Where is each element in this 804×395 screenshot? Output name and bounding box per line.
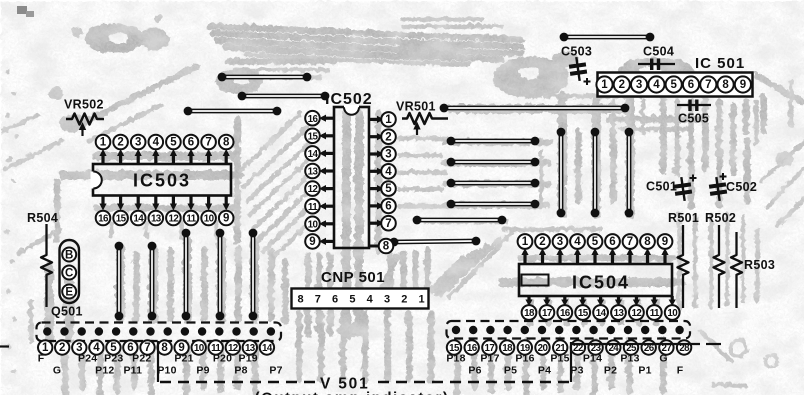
resistor R504 — [27, 211, 58, 307]
svg-text:C: C — [65, 267, 73, 279]
svg-text:16: 16 — [98, 214, 109, 225]
IC504 pin 13 — [617, 296, 620, 302]
board designator V501 — [0, 345, 9, 347]
svg-text:P2: P2 — [604, 365, 617, 377]
IC502 pin 8 — [369, 245, 378, 248]
IC501 pin 3 — [631, 76, 647, 92]
svg-text:13: 13 — [308, 167, 319, 178]
svg-text:14: 14 — [133, 214, 144, 225]
svg-text:12: 12 — [169, 214, 180, 225]
svg-text:8: 8 — [223, 137, 230, 149]
svg-text:16: 16 — [467, 343, 478, 354]
svg-text:3: 3 — [385, 149, 391, 161]
svg-text:R503: R503 — [744, 258, 775, 272]
IC502 pin 16 — [322, 117, 334, 120]
svg-text:5: 5 — [670, 79, 677, 91]
svg-text:(Output amp indicator): (Output amp indicator) — [255, 390, 450, 395]
svg-text:20: 20 — [538, 343, 549, 354]
svg-text:3: 3 — [135, 137, 141, 149]
svg-text:IC 501: IC 501 — [695, 55, 745, 72]
svg-text:4: 4 — [574, 236, 581, 248]
IC501 pin 1 — [596, 76, 612, 92]
wire W14 — [625, 128, 634, 218]
connector pin 3 — [72, 340, 86, 354]
connector pin 8 — [157, 340, 171, 354]
IC503 pin 2 — [119, 152, 122, 164]
IC501 pin 7 — [700, 76, 716, 92]
svg-text:R501: R501 — [668, 211, 699, 225]
connector pin 5 — [106, 340, 120, 354]
IC503 pin 3 — [137, 152, 140, 164]
svg-text:P13: P13 — [620, 353, 639, 365]
svg-text:P4: P4 — [538, 365, 551, 377]
IC503 pin 8 — [225, 152, 228, 164]
svg-text:9: 9 — [309, 236, 315, 248]
IC503 pin 5 — [172, 152, 175, 164]
svg-text:7: 7 — [205, 137, 211, 149]
svg-text:14: 14 — [308, 149, 319, 160]
svg-text:P20: P20 — [213, 353, 232, 365]
svg-text:P9: P9 — [196, 365, 209, 377]
svg-text:P10: P10 — [157, 365, 176, 377]
svg-text:2: 2 — [59, 342, 65, 354]
svg-text:IC504: IC504 — [572, 273, 630, 293]
connector pin 19 — [518, 340, 532, 354]
connector pin 9 — [174, 340, 188, 354]
jumper wires — [115, 33, 655, 321]
IC503 pin 6 — [189, 152, 192, 164]
svg-text:8: 8 — [383, 241, 390, 253]
svg-text:14: 14 — [262, 343, 273, 354]
svg-text:6: 6 — [688, 79, 694, 91]
svg-text:15: 15 — [578, 308, 589, 319]
svg-text:11: 11 — [308, 202, 318, 213]
connector pin 20 — [535, 340, 549, 354]
wire W8 — [447, 179, 540, 188]
connector pin 10 — [192, 340, 206, 354]
svg-text:7: 7 — [627, 236, 633, 248]
IC504 pin 18 — [527, 296, 530, 302]
wire W7 — [447, 158, 540, 167]
svg-text:5: 5 — [170, 137, 177, 149]
wire W16 — [148, 242, 157, 321]
bottom connectors — [37, 323, 283, 377]
IC502 pin 6 — [369, 204, 381, 207]
connector pin 4 — [89, 340, 103, 354]
IC504 pin 4 — [576, 251, 579, 264]
svg-text:10: 10 — [194, 343, 205, 354]
IC504 pin 8 — [646, 251, 649, 264]
IC503 pin 7 — [207, 152, 210, 164]
trace line over pins 22-28 — [570, 343, 700, 345]
connector pin 6 — [123, 340, 137, 354]
wire W2 — [238, 92, 330, 101]
svg-text:9: 9 — [662, 236, 668, 248]
svg-text:C505: C505 — [678, 112, 709, 126]
wire W3 — [184, 107, 282, 116]
IC503 pin 1 — [101, 152, 104, 164]
svg-text:7: 7 — [705, 79, 711, 91]
svg-text:5: 5 — [349, 294, 355, 306]
connector pin 17 — [482, 340, 496, 354]
wire W6 — [447, 137, 540, 146]
IC504 pin 17 — [545, 296, 548, 302]
svg-text:P15: P15 — [550, 353, 569, 365]
svg-text:18: 18 — [524, 308, 535, 319]
svg-text:6: 6 — [609, 236, 615, 248]
IC504 pin 2 — [541, 251, 544, 264]
svg-text:F: F — [38, 353, 45, 365]
IC IC501 — [596, 55, 752, 97]
IC504 pin 14 — [599, 296, 602, 302]
svg-text:1: 1 — [385, 114, 392, 126]
svg-text:P5: P5 — [504, 365, 517, 377]
wire W9 — [447, 200, 540, 209]
svg-text:VR501: VR501 — [396, 100, 436, 114]
svg-text:P8: P8 — [234, 365, 247, 377]
connector pin 2 — [55, 340, 69, 354]
IC503 pin 15 — [119, 196, 122, 208]
svg-text:10: 10 — [308, 219, 319, 230]
IC503 pin 12 — [172, 196, 175, 208]
connector pin 12 — [226, 340, 240, 354]
svg-text:3: 3 — [557, 236, 563, 248]
svg-text:13: 13 — [614, 308, 625, 319]
wire W4 — [560, 33, 655, 42]
connector pin 22 — [571, 340, 585, 354]
svg-text:8: 8 — [161, 342, 168, 354]
IC502 pin 13 — [322, 169, 334, 172]
svg-text:4: 4 — [367, 294, 374, 306]
capacitor C505 — [677, 104, 711, 106]
IC502 pin 10 — [322, 222, 334, 225]
IC504 pin 12 — [635, 296, 638, 302]
IC502 pin 2 — [369, 135, 381, 138]
svg-text:1: 1 — [601, 79, 608, 91]
resistor R503 — [731, 232, 742, 308]
svg-text:8: 8 — [722, 79, 729, 91]
svg-text:G: G — [53, 365, 61, 377]
IC IC502 — [305, 91, 396, 253]
svg-text:R502: R502 — [705, 211, 736, 225]
IC501 pin 8 — [718, 76, 734, 92]
svg-text:2: 2 — [401, 294, 407, 306]
connector pin 21 — [553, 340, 567, 354]
svg-text:G: G — [659, 353, 667, 365]
svg-text:8: 8 — [644, 236, 651, 248]
wire W10 — [413, 216, 507, 225]
connector pin 16 — [465, 340, 479, 354]
svg-text:5: 5 — [385, 183, 392, 195]
svg-text:P18: P18 — [446, 353, 465, 365]
svg-text:C502: C502 — [726, 180, 757, 194]
svg-text:2: 2 — [539, 236, 545, 248]
IC504 pin 10 — [671, 296, 674, 302]
connector pin 7 — [140, 340, 154, 354]
svg-text:4: 4 — [385, 166, 392, 178]
svg-text:E: E — [65, 286, 73, 298]
svg-text:10: 10 — [204, 214, 215, 225]
IC501 pin 5 — [666, 76, 682, 92]
svg-text:18: 18 — [502, 343, 513, 354]
connector pin 28 — [677, 340, 691, 354]
IC503 pin 16 — [101, 196, 104, 208]
svg-text:CNP 501: CNP 501 — [321, 269, 385, 286]
connector pin 23 — [588, 340, 602, 354]
wire W5 — [440, 104, 630, 113]
svg-text:4: 4 — [653, 79, 660, 91]
svg-text:6: 6 — [332, 294, 338, 306]
connector pin 14 — [260, 340, 274, 354]
IC502 pin 3 — [369, 152, 381, 155]
IC501 pin 2 — [614, 76, 630, 92]
capacitors top — [561, 45, 711, 126]
svg-text:11: 11 — [650, 308, 660, 319]
IC503 pin 4 — [154, 152, 157, 164]
svg-text:3: 3 — [384, 294, 390, 306]
svg-text:9: 9 — [740, 79, 746, 91]
svg-text:11: 11 — [186, 214, 196, 225]
connector CNP501 — [292, 269, 429, 309]
wire W17 — [182, 229, 191, 321]
connector pin 27 — [659, 340, 673, 354]
svg-text:P14: P14 — [583, 353, 602, 365]
IC IC504 — [518, 234, 680, 320]
IC IC503 — [91, 135, 234, 226]
svg-text:P11: P11 — [123, 365, 142, 377]
svg-text:7: 7 — [315, 294, 321, 306]
IC501 pin 9 — [735, 76, 751, 92]
connector left half (pins 1-14) — [37, 323, 282, 342]
svg-text:P17: P17 — [480, 353, 499, 365]
IC504 pin 7 — [628, 251, 631, 264]
connector pin 18 — [500, 340, 514, 354]
capacitor C502 — [708, 176, 728, 202]
wire W12 — [557, 128, 566, 218]
IC502 pin 11 — [322, 205, 334, 208]
variable resistor VR501 — [396, 100, 448, 136]
svg-text:6: 6 — [188, 137, 194, 149]
svg-text:P3: P3 — [570, 365, 583, 377]
svg-text:P24: P24 — [78, 353, 97, 365]
svg-text:10: 10 — [667, 308, 678, 319]
svg-text:7: 7 — [385, 218, 391, 230]
svg-text:P16: P16 — [515, 353, 534, 365]
wire W1 — [218, 73, 312, 82]
wire W15 — [115, 242, 124, 321]
IC502 pin 5 — [369, 187, 381, 190]
IC502 pin 14 — [322, 152, 334, 155]
IC504 pin 16 — [563, 296, 566, 302]
IC502 pin 15 — [322, 134, 334, 137]
svg-text:C504: C504 — [643, 45, 674, 59]
svg-text:12: 12 — [308, 184, 319, 195]
svg-text:P22: P22 — [132, 353, 151, 365]
svg-text:13: 13 — [151, 214, 162, 225]
svg-text:2: 2 — [117, 137, 123, 149]
svg-text:1: 1 — [522, 236, 529, 248]
wire W19 — [249, 229, 258, 321]
svg-text:3: 3 — [636, 79, 642, 91]
svg-text:R504: R504 — [27, 211, 58, 225]
svg-text:VR502: VR502 — [64, 98, 104, 112]
IC502 pin 12 — [322, 187, 334, 190]
svg-text:8: 8 — [297, 294, 303, 306]
wire W13 — [591, 128, 600, 218]
svg-text:5: 5 — [592, 236, 599, 248]
IC503 pin 13 — [154, 196, 157, 208]
variable resistor VR502 — [64, 98, 104, 137]
svg-text:C501: C501 — [646, 180, 677, 194]
IC504 pin 5 — [593, 251, 596, 264]
svg-text:P6: P6 — [468, 365, 481, 377]
IC503 pin 9 — [225, 196, 228, 208]
svg-text:16: 16 — [308, 114, 319, 125]
svg-text:F: F — [677, 365, 684, 377]
board V501 bracket — [0, 341, 571, 395]
svg-text:P1: P1 — [638, 365, 651, 377]
svg-text:P23: P23 — [104, 353, 123, 365]
svg-text:C503: C503 — [561, 45, 592, 59]
transistor Q501 — [51, 240, 83, 319]
svg-text:15: 15 — [308, 131, 319, 142]
IC504 pin 15 — [581, 296, 584, 302]
connector pin 13 — [243, 340, 257, 354]
svg-text:17: 17 — [542, 308, 553, 319]
IC504 pin 3 — [558, 251, 561, 264]
IC502 pin 9 — [322, 240, 334, 243]
IC501 pin 4 — [648, 76, 664, 92]
connector pin 25 — [624, 340, 638, 354]
corner speck top-left — [17, 6, 27, 14]
svg-text:B: B — [65, 249, 73, 261]
svg-text:6: 6 — [385, 201, 391, 213]
wire W18 — [216, 229, 225, 321]
IC503 pin 14 — [137, 196, 140, 208]
IC504 pin 1 — [523, 251, 526, 264]
svg-text:12: 12 — [632, 308, 643, 319]
connector pin 26 — [642, 340, 656, 354]
svg-text:P19: P19 — [239, 353, 258, 365]
svg-text:2: 2 — [385, 131, 391, 143]
svg-text:IC503: IC503 — [133, 171, 191, 191]
IC504 pin 11 — [653, 296, 656, 302]
connector pin 24 — [606, 340, 620, 354]
svg-text:1: 1 — [419, 294, 425, 306]
svg-text:2: 2 — [619, 79, 625, 91]
connector pin 11 — [209, 340, 223, 354]
svg-text:P7: P7 — [269, 365, 282, 377]
IC502 pin 4 — [369, 170, 381, 173]
IC503 pin 11 — [189, 196, 192, 208]
IC502 pin 1 — [369, 118, 381, 121]
connector pin 15 — [447, 340, 461, 354]
svg-text:P21: P21 — [174, 353, 193, 365]
IC504 pin 9 — [663, 251, 666, 264]
connector pin 1 — [38, 340, 52, 354]
svg-text:P12: P12 — [95, 365, 114, 377]
IC504 pin 6 — [611, 251, 614, 264]
svg-text:Q501: Q501 — [51, 305, 83, 319]
wire W11 from IC502 pin 8 — [390, 237, 481, 247]
capacitors C501 C502 and resistors R501-R503 — [646, 173, 775, 308]
connector right half (pins 15-28) — [447, 321, 691, 339]
IC503 pin 10 — [207, 196, 210, 208]
svg-text:1: 1 — [100, 137, 107, 149]
svg-text:14: 14 — [596, 308, 607, 319]
IC501 pin 6 — [683, 76, 699, 92]
svg-text:16: 16 — [560, 308, 571, 319]
svg-text:9: 9 — [223, 213, 229, 225]
IC502 pin 7 — [369, 222, 381, 225]
svg-text:15: 15 — [116, 214, 127, 225]
svg-text:4: 4 — [153, 137, 160, 149]
